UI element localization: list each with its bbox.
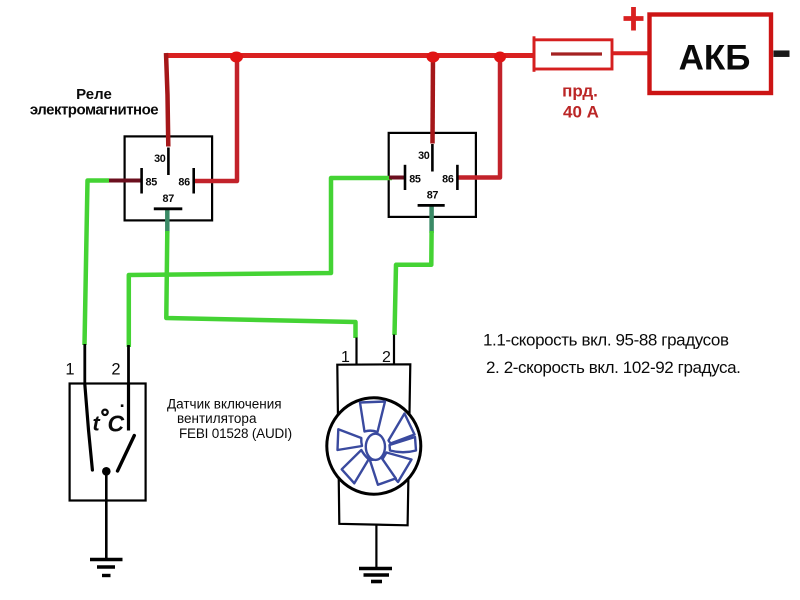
svg-text:1.1-скорость вкл. 95-88 градус: 1.1-скорость вкл. 95-88 градусов [483, 331, 729, 350]
svg-text:Датчик включения: Датчик включения [167, 397, 282, 412]
svg-text:30: 30 [154, 153, 166, 165]
svg-text:2. 2-скорость вкл. 102-92 град: 2. 2-скорость вкл. 102-92 градуса. [486, 358, 740, 377]
svg-text:30: 30 [418, 150, 430, 162]
svg-text:Реле: Реле [76, 86, 112, 103]
svg-text:86: 86 [178, 177, 190, 189]
svg-text:85: 85 [409, 173, 421, 185]
svg-text:87: 87 [427, 190, 439, 202]
svg-text:t: t [93, 412, 101, 436]
svg-text:40 А: 40 А [563, 103, 599, 122]
svg-text:1: 1 [65, 361, 74, 379]
svg-text:85: 85 [146, 177, 158, 189]
svg-text:86: 86 [442, 173, 454, 185]
svg-text:87: 87 [162, 193, 174, 205]
svg-text:АКБ: АКБ [679, 39, 751, 78]
svg-text:C: C [108, 410, 125, 436]
svg-text:вентилятора: вентилятора [177, 411, 257, 426]
svg-text:2: 2 [111, 361, 120, 379]
svg-text:1: 1 [341, 349, 350, 366]
svg-text:электромагнитное: электромагнитное [30, 102, 158, 119]
svg-text:прд.: прд. [562, 82, 598, 101]
svg-text:FEBI 01528 (AUDI): FEBI 01528 (AUDI) [179, 426, 292, 441]
